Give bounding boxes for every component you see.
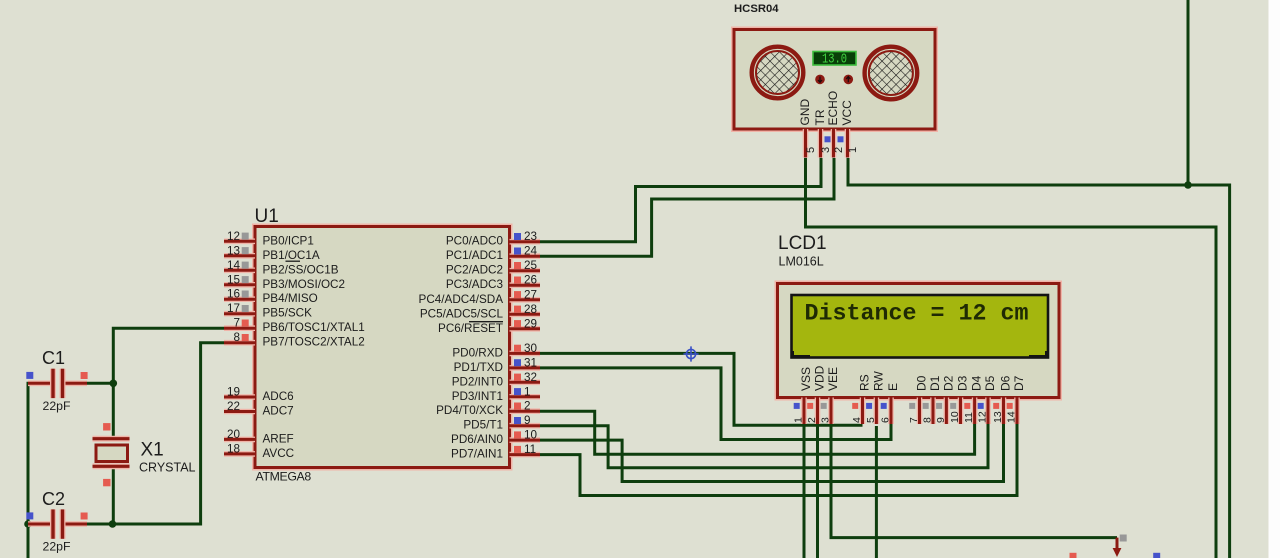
capacitor C2 right state square: [81, 513, 88, 520]
svg-text:LCD1: LCD1: [778, 233, 827, 254]
svg-text:26: 26: [524, 274, 537, 287]
wire PD5 to LCD D5: [540, 423, 988, 468]
svg-text:16: 16: [227, 288, 240, 301]
junction C2/crystal/XTAL2: [109, 520, 117, 528]
svg-text:13: 13: [227, 244, 240, 257]
capacitor C2: [28, 509, 87, 538]
chip pin 20 AREF: [224, 428, 294, 446]
cutoff component red square bottom: [1070, 553, 1077, 558]
svg-text:PC5/ADC5/SCL: PC5/ADC5/SCL: [420, 307, 504, 320]
svg-text:LM016L: LM016L: [779, 255, 824, 269]
svg-text:D6: D6: [999, 375, 1013, 391]
svg-text:PC2/ADC2: PC2/ADC2: [446, 264, 503, 277]
chip pin 19 ADC6: [224, 386, 294, 404]
svg-text:19: 19: [227, 386, 240, 399]
sensor left transducer: [757, 52, 799, 94]
svg-text:CRYSTAL: CRYSTAL: [139, 461, 196, 475]
svg-text:GND: GND: [798, 99, 812, 126]
svg-text:PB1/OC1A: PB1/OC1A: [263, 249, 320, 262]
chip pin 9 PD5/T1: [463, 414, 540, 432]
svg-text:PD2/INT0: PD2/INT0: [452, 375, 504, 388]
svg-text:28: 28: [524, 303, 537, 316]
capacitor C2 left state square: [26, 512, 33, 519]
svg-text:10: 10: [949, 411, 961, 423]
svg-text:AREF: AREF: [263, 432, 294, 445]
chip pin 14 PB2/SS/OC1B: [224, 259, 339, 277]
svg-text:3: 3: [820, 147, 832, 153]
svg-text:PB0/ICP1: PB0/ICP1: [263, 234, 314, 247]
lcd pin 6 E: [880, 383, 901, 424]
wire top vertical into VCC node: [1187, 0, 1190, 185]
svg-text:1: 1: [793, 417, 805, 423]
chip pin 26 PC3/ADC3: [446, 274, 540, 292]
svg-text:13: 13: [992, 411, 1004, 423]
svg-text:PB3/MOSI/OC2: PB3/MOSI/OC2: [263, 278, 346, 291]
svg-text:PC1/ADC1: PC1/ADC1: [446, 249, 503, 262]
svg-text:C1: C1: [42, 348, 65, 368]
chip pin 8 PB7/TOSC2/XTAL2: [224, 331, 365, 349]
svg-text:11: 11: [963, 412, 975, 423]
sensor pin GND (pin 5): [798, 99, 817, 158]
svg-text:PD4/T0/XCK: PD4/T0/XCK: [436, 404, 503, 417]
svg-text:X1: X1: [141, 440, 164, 461]
lcd pin 7 D0: [908, 375, 929, 424]
wire C2 left: [28, 523, 51, 526]
chip pin 28 PC5/ADC5/SCL: [420, 303, 540, 321]
svg-text:9: 9: [524, 414, 531, 427]
chip pin 15 PB3/MOSI/OC2: [224, 273, 345, 291]
svg-text:VDD: VDD: [813, 365, 827, 391]
wire pin7 XTAL1 to crystal-top/C1 junction: [113, 328, 224, 437]
svg-text:7: 7: [908, 417, 920, 423]
svg-text:2: 2: [833, 147, 845, 153]
svg-text:VEE: VEE: [826, 367, 840, 391]
svg-text:D0: D0: [915, 375, 929, 391]
chip pin 12 PB0/ICP1: [224, 230, 314, 248]
svg-text:D1: D1: [928, 375, 942, 391]
svg-text:1: 1: [847, 147, 859, 153]
wire PD4 to LCD D4: [540, 411, 975, 454]
lcd pin 14 D7: [1006, 375, 1027, 424]
lcd pin 13 D6: [992, 375, 1013, 424]
svg-text:D2: D2: [941, 375, 955, 391]
wire sensor VCC to right rail: [848, 158, 1230, 558]
svg-text:22pF: 22pF: [43, 540, 72, 554]
svg-text:30: 30: [524, 342, 538, 355]
svg-text:5: 5: [805, 147, 817, 153]
svg-text:PB5/SCK: PB5/SCK: [263, 307, 313, 320]
sensor led down-arrow: [815, 75, 825, 85]
svg-text:ATMEGA8: ATMEGA8: [256, 470, 312, 484]
wire PD0/RXD to LCD RS: [540, 353, 863, 425]
lcd pin 9 D2: [935, 375, 956, 424]
svg-text:7: 7: [233, 317, 240, 330]
wire PC1 to sensor ECHO: [540, 158, 834, 256]
svg-text:2: 2: [806, 417, 818, 423]
svg-text:C2: C2: [42, 489, 65, 509]
sensor pin VCC (pin 1): [840, 100, 859, 158]
chip pin 18 AVCC: [224, 442, 294, 460]
lcd pin 12 D5: [977, 375, 998, 424]
wire LCD VDD down: [816, 423, 819, 558]
chip pin 25 PC2/ADC2: [446, 259, 540, 277]
chip pin 24 PC1/ADC1: [446, 245, 540, 263]
wire LCD VSS down: [803, 423, 806, 558]
svg-text:1: 1: [524, 385, 531, 398]
chip pin 10 PD6/AIN0: [451, 429, 540, 447]
svg-text:PD6/AIN0: PD6/AIN0: [451, 433, 503, 446]
lcd pin 8 D1: [922, 375, 943, 424]
svg-text:PC0/ADC0: PC0/ADC0: [446, 235, 504, 248]
crystal X1 bottom state square: [103, 479, 110, 486]
chip pin 32 PD2/INT0: [452, 371, 540, 389]
wire C2 right to junction: [65, 523, 113, 526]
chip pin 17 PB5/SCK: [224, 302, 312, 320]
svg-text:PD1/TXD: PD1/TXD: [454, 361, 503, 374]
chip pin 27 PC4/ADC4/SDA: [419, 288, 540, 306]
chip pin 11 PD7/AIN1: [451, 443, 540, 461]
svg-text:12: 12: [977, 411, 989, 423]
junction VCC node: [1184, 181, 1192, 189]
svg-text:2: 2: [524, 400, 531, 413]
svg-text:4: 4: [851, 417, 863, 423]
origin marker on PD0 wire: [683, 346, 698, 361]
crystal X1: [93, 439, 130, 467]
svg-text:20: 20: [227, 428, 241, 441]
chip pin 23 PC0/ADC0: [446, 230, 540, 248]
svg-text:27: 27: [524, 288, 537, 301]
svg-text:VSS: VSS: [799, 367, 813, 391]
svg-text:11: 11: [524, 443, 536, 456]
svg-text:32: 32: [524, 371, 537, 384]
svg-text:10: 10: [524, 429, 538, 442]
svg-text:D5: D5: [983, 375, 997, 391]
svg-text:6: 6: [880, 417, 892, 423]
svg-text:Distance = 12 cm: Distance = 12 cm: [805, 301, 1029, 327]
sensor distance display: [813, 52, 856, 66]
chip pin 22 ADC7: [224, 400, 294, 418]
svg-text:24: 24: [524, 245, 538, 258]
contrast pot gray state square: [1120, 535, 1127, 542]
svg-text:9: 9: [935, 417, 947, 423]
chip pin 2 PD4/T0/XCK: [436, 400, 540, 418]
sensor led up-arrow: [844, 75, 854, 85]
svg-text:8: 8: [922, 417, 934, 423]
svg-text:14: 14: [1006, 411, 1018, 423]
window edge white strip: [1269, 0, 1280, 558]
lcd pin 11 D4: [963, 375, 984, 424]
svg-text:PC6/RESET: PC6/RESET: [438, 322, 503, 335]
svg-text:18: 18: [227, 442, 240, 455]
wire crystal bottom to C2 junction: [112, 468, 115, 525]
svg-text:D3: D3: [956, 375, 970, 391]
svg-text:PD5/T1: PD5/T1: [463, 419, 503, 432]
lcd screen: [792, 295, 1049, 358]
svg-text:23: 23: [524, 230, 537, 243]
svg-text:PB2/SS/OC1B: PB2/SS/OC1B: [263, 263, 339, 276]
svg-text:PC4/ADC4/SDA: PC4/ADC4/SDA: [419, 293, 504, 306]
svg-text:29: 29: [524, 317, 537, 330]
lcd pin 3 VEE: [820, 367, 841, 424]
svg-text:PD3/INT1: PD3/INT1: [452, 390, 503, 403]
chip pin 13 PB1/OC1A: [224, 244, 320, 261]
svg-text:25: 25: [524, 259, 538, 272]
sensor right transducer: [869, 52, 912, 95]
chip pin 16 PB4/MISO: [224, 288, 318, 306]
capacitor C1 left state square: [26, 372, 33, 379]
svg-text:22: 22: [227, 400, 240, 413]
capacitor C1: [28, 369, 87, 398]
svg-text:12: 12: [227, 230, 240, 243]
svg-text:PD7/AIN1: PD7/AIN1: [451, 448, 503, 461]
svg-text:PB7/TOSC2/XTAL2: PB7/TOSC2/XTAL2: [263, 336, 365, 349]
cutoff component blue square bottom: [1153, 553, 1160, 558]
svg-text:ADC7: ADC7: [263, 405, 294, 418]
svg-text:5: 5: [865, 417, 877, 423]
chip pin 31 PD1/TXD: [454, 356, 540, 374]
svg-text:22pF: 22pF: [43, 399, 72, 413]
svg-text:ECHO: ECHO: [826, 91, 840, 126]
svg-text:RS: RS: [858, 374, 872, 391]
wire C1 left to ground rail: [28, 383, 51, 558]
svg-text:HCSR04: HCSR04: [734, 3, 779, 15]
svg-text:14: 14: [227, 259, 241, 272]
wire C1 right to junction: [65, 382, 114, 385]
svg-text:PB6/TOSC1/XTAL1: PB6/TOSC1/XTAL1: [263, 321, 365, 334]
svg-text:ADC6: ADC6: [263, 390, 294, 403]
wire LCD VEE to contrast pot: [831, 423, 1117, 538]
capacitor C1 right state square: [81, 372, 88, 379]
wire pin8 XTAL2 to C2 junction: [113, 343, 225, 524]
wire PC0 to sensor TR: [540, 158, 821, 242]
junction C1/crystal/XTAL1: [110, 380, 118, 388]
svg-text:8: 8: [233, 331, 240, 344]
lcd pin 5 RW: [865, 371, 886, 424]
svg-text:15: 15: [227, 273, 241, 286]
svg-text:PC3/ADC3: PC3/ADC3: [446, 278, 503, 291]
sensor HCSR04 body: [734, 30, 935, 130]
wire LCD RW down: [875, 426, 878, 558]
svg-text:AVCC: AVCC: [263, 447, 295, 460]
chip pin 29 PC6/RESET: [438, 317, 540, 335]
chip pin 7 PB6/TOSC1/XTAL1: [224, 317, 365, 335]
sensor pin ECHO (pin 2): [826, 91, 845, 158]
svg-text:PD0/RXD: PD0/RXD: [452, 346, 503, 359]
lcd LM016L body: [778, 284, 1060, 398]
svg-text:D4: D4: [970, 375, 984, 391]
svg-text:13.0: 13.0: [822, 53, 847, 68]
junction C2 left / ground rail: [24, 520, 32, 528]
svg-text:3: 3: [820, 417, 832, 423]
svg-text:E: E: [886, 383, 900, 391]
wire sensor GND down-right rail: [806, 158, 1217, 558]
svg-text:D7: D7: [1012, 375, 1026, 391]
wire PD6 to LCD D6: [540, 423, 1004, 482]
chip pin 1 PD3/INT1: [452, 385, 540, 403]
svg-text:VCC: VCC: [840, 100, 854, 126]
wire PD7 to LCD D7: [540, 423, 1017, 496]
contrast pot pin stub (cut off): [1116, 538, 1119, 549]
svg-text:TR: TR: [813, 109, 827, 125]
sensor pin TR (pin 3): [813, 109, 832, 157]
op chip U1 ATMEGA8 body: [255, 227, 510, 468]
crystal X1 top state square: [103, 423, 110, 430]
svg-text:PB4/MISO: PB4/MISO: [263, 292, 318, 305]
lcd pin 10 D3: [949, 375, 970, 424]
lcd pin 4 RS: [851, 374, 872, 424]
svg-text:31: 31: [524, 356, 537, 369]
chip pin 30 PD0/RXD: [452, 342, 540, 360]
wire PD1/TXD to LCD E: [540, 368, 891, 440]
lcd pin 1 VSS: [793, 367, 814, 424]
svg-text:17: 17: [227, 302, 240, 315]
svg-text:RW: RW: [871, 371, 885, 391]
lcd pin 2 VDD: [806, 365, 827, 424]
